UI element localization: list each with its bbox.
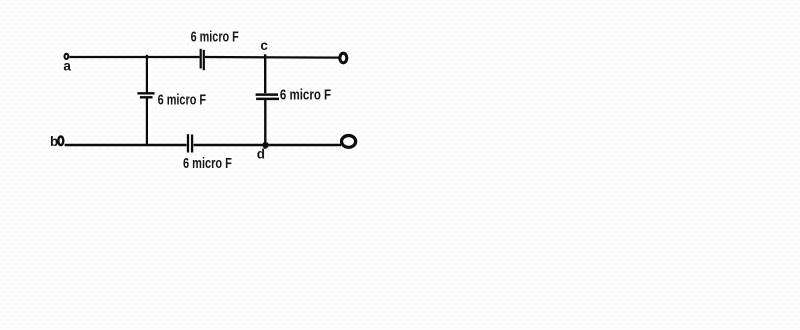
svg-text:6 micro F: 6 micro F: [183, 156, 232, 172]
terminal bottom-right: [342, 136, 356, 148]
terminal a: [65, 54, 69, 59]
terminal b: [58, 137, 63, 146]
wire junction stub left branch: [146, 55, 148, 93]
capacitor C1 plate right: [203, 50, 205, 70]
capacitor C1 plate left: [200, 49, 202, 69]
svg-text:a: a: [63, 58, 71, 73]
wire bottom-right segment C4 to terminal: [194, 144, 341, 147]
wire C2 to bottom wire: [146, 99, 148, 147]
svg-text:c: c: [260, 38, 268, 53]
capacitor C2 plate top: [137, 92, 154, 94]
wire top-left segment a to C1: [69, 56, 199, 58]
svg-text:6 micro F: 6 micro F: [280, 88, 331, 104]
wire bottom-left segment b to C4: [65, 144, 187, 147]
capacitor C3 plate top: [256, 93, 278, 96]
svg-text:6 micro F: 6 micro F: [158, 92, 207, 108]
wire top-right segment C1 to terminal: [205, 56, 339, 59]
svg-text:d: d: [257, 146, 265, 161]
wire node c down to C3: [264, 54, 266, 93]
capacitor C4 plate left: [187, 134, 189, 152]
capacitor C4 plate right: [191, 135, 193, 153]
node d junction dot: [263, 143, 268, 148]
svg-text:b: b: [50, 134, 58, 149]
terminal top-right: [340, 53, 347, 63]
capacitor C2 plate bottom: [140, 96, 153, 98]
svg-text:6 micro F: 6 micro F: [191, 30, 239, 46]
capacitor C3 plate bottom: [256, 98, 279, 101]
wire C3 down past node d: [264, 100, 266, 149]
